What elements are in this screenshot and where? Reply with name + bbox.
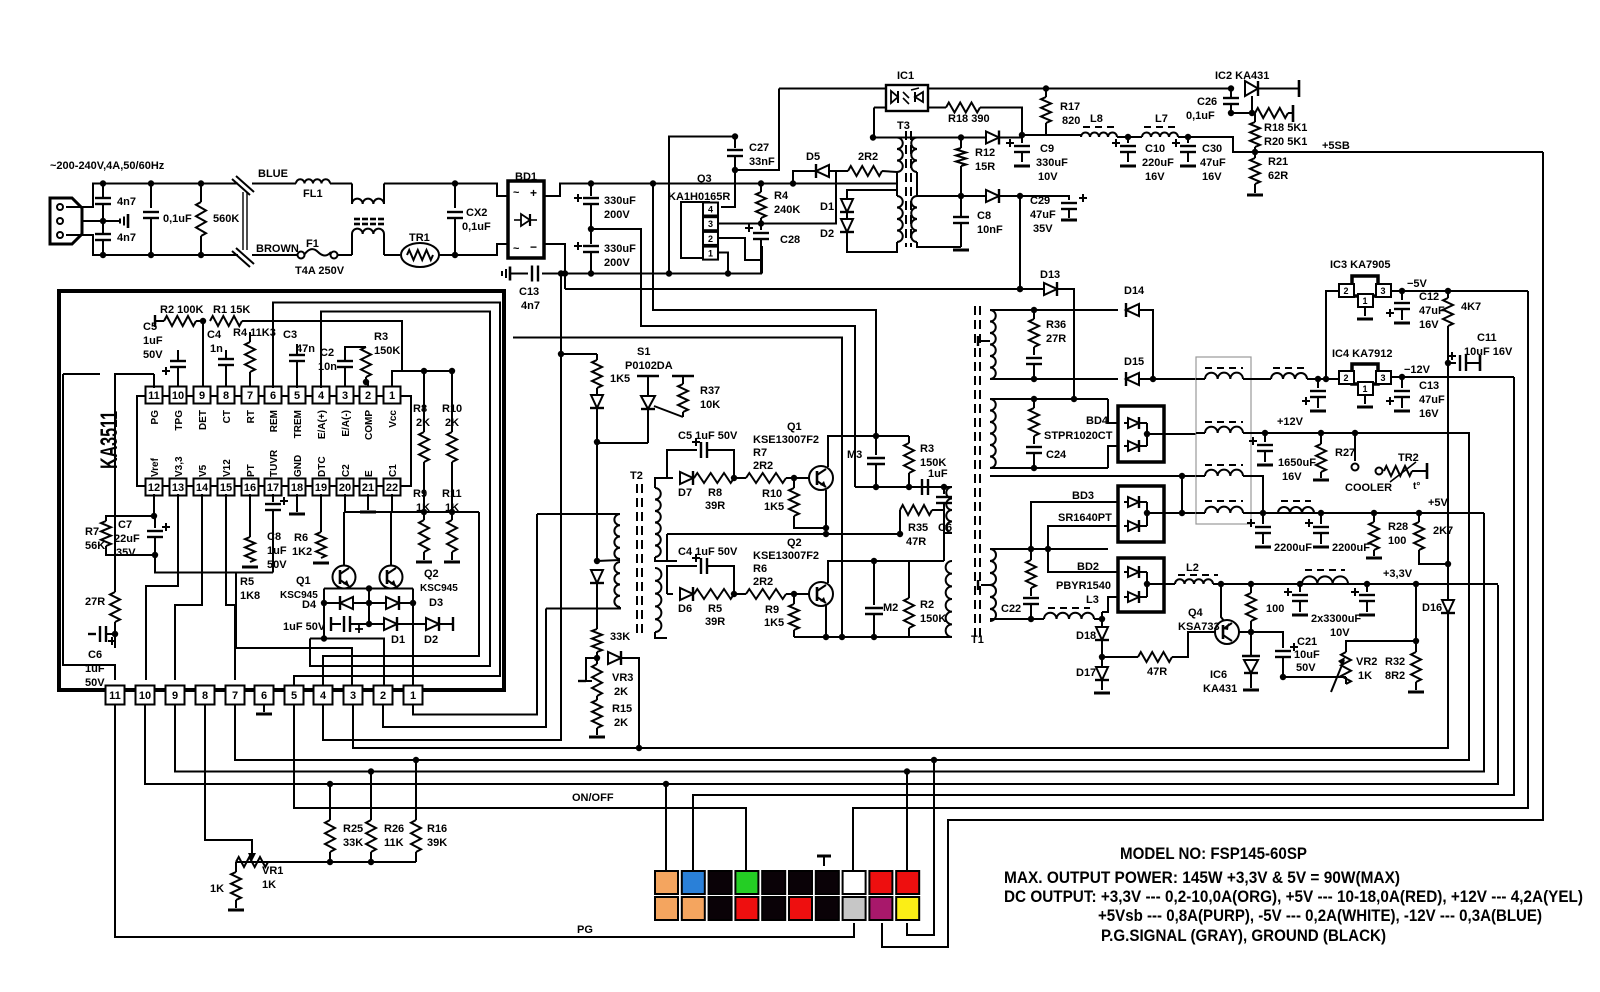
wire drive to ext2	[310, 639, 384, 689]
wire PG loop W1	[63, 374, 115, 680]
svg-text:BROWN: BROWN	[256, 243, 299, 255]
transformer T1 primary winding lower	[946, 561, 952, 637]
connector pad row2 red +5V	[735, 897, 758, 920]
svg-text:D15: D15	[1124, 356, 1144, 368]
svg-text:D2: D2	[820, 228, 834, 240]
svg-text:2K: 2K	[614, 686, 628, 698]
svg-text:0,1uF: 0,1uF	[1186, 110, 1215, 122]
wire C27 bottom to Q3 pin4	[721, 170, 735, 207]
capacitor 2200uF b	[1320, 513, 1322, 524]
svg-text:COOLER: COOLER	[1345, 482, 1392, 494]
wire D10 down to D13	[1019, 196, 1021, 289]
svg-text:10K: 10K	[700, 399, 720, 411]
svg-text:7: 7	[232, 690, 238, 702]
svg-text:33nF: 33nF	[749, 156, 775, 168]
wire top AC line	[103, 183, 238, 185]
svg-text:150K: 150K	[374, 345, 400, 357]
svg-text:240K: 240K	[774, 204, 800, 216]
wire sec3 bottom	[990, 618, 1044, 620]
svg-text:R1 15K: R1 15K	[213, 304, 250, 316]
wire pin4 bus	[323, 274, 561, 741]
capacitor 4n7 upper	[102, 184, 104, 198]
svg-text:BD1: BD1	[515, 171, 537, 183]
filter module box	[1196, 357, 1251, 524]
svg-text:C2: C2	[341, 464, 352, 477]
wire C27 top link	[669, 137, 735, 274]
svg-text:6: 6	[261, 690, 267, 702]
wire	[330, 183, 352, 185]
svg-text:C3: C3	[283, 329, 297, 341]
wire ref node	[1231, 112, 1255, 114]
connector pad row2 purple +5Vsb	[869, 897, 892, 920]
svg-text:D17: D17	[1076, 667, 1096, 679]
resistor R12 15R	[960, 138, 962, 149]
svg-text:C29: C29	[1030, 195, 1050, 207]
svg-text:13: 13	[172, 482, 184, 494]
wire Q3 supply drop	[653, 184, 876, 437]
svg-text:4: 4	[708, 205, 713, 215]
node	[100, 180, 106, 186]
transformer T1 sec winding 12V	[990, 399, 996, 468]
wire pin9 bus +5V	[175, 513, 1484, 772]
node	[1117, 136, 1128, 138]
diode D9 standby	[986, 132, 999, 144]
svg-text:200V: 200V	[604, 209, 630, 221]
connector pad row1 black GND	[709, 871, 732, 894]
svg-text:27R: 27R	[1046, 333, 1066, 345]
connector pad row1 blue -12V	[682, 871, 705, 894]
diode DS2	[591, 570, 603, 583]
svg-text:1: 1	[1362, 296, 1367, 306]
wire T3 sec lower row	[917, 195, 986, 197]
svg-text:R28: R28	[1388, 521, 1408, 533]
svg-text:D14: D14	[1124, 285, 1145, 297]
svg-text:R7: R7	[753, 447, 767, 459]
svg-text:C30: C30	[1202, 143, 1222, 155]
wire pin1 bus	[413, 514, 537, 715]
svg-text:KSE13007F2: KSE13007F2	[753, 434, 819, 446]
svg-text:15R: 15R	[975, 161, 995, 173]
capacitor C330a 330uF 200V	[588, 180, 594, 186]
svg-text:L3: L3	[1086, 594, 1099, 606]
resistor R21 62R	[1254, 152, 1256, 158]
connector pad row2 orange +3,3V	[682, 897, 705, 920]
wire 27R net	[115, 374, 154, 580]
wire TREM stub	[296, 375, 298, 388]
ground earth C13	[509, 267, 512, 281]
svg-text:R8: R8	[708, 487, 722, 499]
svg-text:E: E	[364, 470, 375, 477]
svg-text:IC6: IC6	[1210, 669, 1227, 681]
svg-text:16V: 16V	[1419, 319, 1439, 331]
wire E pin stub	[367, 494, 369, 510]
wire PG bus	[115, 705, 854, 937]
thermistor TR1	[401, 243, 439, 267]
svg-text:4K7: 4K7	[1461, 301, 1481, 313]
svg-text:IC3 KA7905: IC3 KA7905	[1330, 259, 1391, 271]
svg-text:T4A 250V: T4A 250V	[295, 265, 345, 277]
transformer T3 primary winding lower	[897, 196, 903, 242]
svg-text:Vcc: Vcc	[388, 410, 399, 428]
control board border	[59, 291, 504, 690]
svg-text:+5SB: +5SB	[1322, 140, 1350, 152]
svg-text:REM: REM	[269, 410, 280, 432]
svg-text:330uF: 330uF	[604, 243, 636, 255]
svg-text:C4: C4	[207, 329, 222, 341]
svg-text:S1: S1	[637, 346, 650, 358]
capacitor C13b 47uF 16V	[1399, 374, 1405, 380]
wire C2 stub	[344, 494, 346, 512]
svg-text:1K: 1K	[262, 879, 276, 891]
connector pad row2 red +5V	[789, 897, 812, 920]
svg-text:−: −	[530, 240, 537, 254]
IC U1 top pins	[146, 387, 163, 404]
wire BD2 out +3,3V	[1147, 583, 1175, 585]
wire	[252, 183, 296, 185]
svg-text:1uF: 1uF	[143, 335, 163, 347]
svg-text:DTC: DTC	[317, 456, 328, 477]
switch S ac	[236, 176, 254, 192]
svg-text:16V: 16V	[1202, 171, 1222, 183]
svg-text:2200uF: 2200uF	[1332, 542, 1370, 554]
svg-text:16V: 16V	[1282, 471, 1302, 483]
svg-text:R37: R37	[700, 385, 720, 397]
svg-text:Q2: Q2	[787, 537, 802, 549]
node Vref	[153, 494, 155, 516]
capacitor C36	[1026, 357, 1042, 359]
svg-text:1K5: 1K5	[764, 501, 784, 513]
capacitor CX2 0,1uF	[454, 184, 456, 209]
svg-text:C1: C1	[388, 464, 399, 477]
wire IC3 feed	[1326, 291, 1339, 379]
svg-text:2: 2	[365, 390, 371, 402]
svg-text:D3: D3	[429, 597, 443, 609]
svg-text:R3: R3	[374, 331, 388, 343]
svg-text:~: ~	[513, 187, 520, 199]
wire C1 junction	[392, 494, 452, 512]
svg-text:DC OUTPUT: +3,3V --- 0,2-10,0A: DC OUTPUT: +3,3V --- 0,2-10,0A(ORG), +5V…	[1004, 887, 1583, 906]
svg-text:3: 3	[350, 690, 356, 702]
svg-text:Q1: Q1	[296, 575, 311, 587]
node +5SB	[1252, 149, 1258, 155]
resistor R4 240K	[758, 180, 764, 186]
svg-text:Q3: Q3	[697, 173, 712, 185]
diode D VR3	[608, 652, 621, 664]
svg-text:C8: C8	[977, 210, 991, 222]
svg-text:10: 10	[139, 690, 151, 702]
svg-text:R18 5K1: R18 5K1	[1264, 122, 1307, 134]
transformer T1 sec winding 3V3/5V	[990, 549, 996, 621]
svg-text:200V: 200V	[604, 257, 630, 269]
wire Vcc rail	[392, 371, 452, 387]
svg-text:2R2: 2R2	[753, 576, 773, 588]
svg-text:1: 1	[410, 690, 416, 702]
svg-text:150K: 150K	[920, 613, 946, 625]
svg-text:KSE13007F2: KSE13007F2	[753, 550, 819, 562]
svg-text:19: 19	[315, 482, 327, 494]
svg-text:PG: PG	[150, 410, 161, 425]
svg-text:COMP: COMP	[364, 410, 375, 440]
svg-text:39K: 39K	[427, 837, 447, 849]
transformer T2 left winding upper	[614, 514, 620, 559]
wire -5V bus	[853, 291, 1528, 871]
wire BD1- bus right	[565, 288, 1035, 290]
svg-text:47n: 47n	[296, 343, 315, 355]
svg-text:R17: R17	[1060, 101, 1080, 113]
transformer T2 left winding lower	[614, 562, 620, 607]
svg-text:DET: DET	[198, 410, 209, 430]
connector pad row1 green ON/OFF	[735, 871, 758, 894]
wire BD1 + output	[544, 184, 591, 197]
diode D7	[667, 477, 673, 479]
wire C21 to VR2	[1283, 676, 1346, 678]
winding tap	[981, 340, 990, 342]
wire sec1 bottom	[990, 378, 1118, 380]
svg-text:T1: T1	[971, 634, 984, 646]
svg-text:33K: 33K	[343, 837, 363, 849]
wire ext3 link	[236, 573, 352, 689]
transformer T3 core	[905, 131, 907, 247]
svg-text:C2: C2	[320, 347, 334, 359]
transformer LF choke lower winding	[351, 234, 353, 255]
svg-text:C21: C21	[1297, 636, 1317, 648]
wire sec2 bottom	[990, 467, 1108, 469]
wire	[66, 206, 80, 208]
svg-text:D1: D1	[391, 634, 405, 646]
svg-text:Q1: Q1	[787, 421, 802, 433]
svg-text:11: 11	[148, 390, 160, 402]
svg-text:2200uF: 2200uF	[1274, 542, 1312, 554]
svg-text:+5V: +5V	[1428, 497, 1449, 509]
svg-text:IC1: IC1	[897, 70, 914, 82]
wire T1 primary lower link	[874, 560, 944, 562]
svg-text:PG: PG	[577, 924, 593, 936]
svg-text:7: 7	[247, 390, 253, 402]
svg-text:C7: C7	[118, 519, 132, 531]
svg-text:820: 820	[1062, 115, 1080, 127]
diode D18	[1101, 619, 1103, 627]
svg-text:1n: 1n	[210, 343, 223, 355]
capacitor 3300uF a	[1299, 584, 1301, 592]
svg-text:RT: RT	[246, 410, 257, 423]
wire +3,3V drop to connector	[665, 784, 667, 871]
svg-text:D1: D1	[820, 201, 834, 213]
ground GND pin	[296, 494, 298, 512]
svg-text:C12: C12	[1419, 291, 1439, 303]
diode DS1	[591, 395, 603, 408]
transformer LF choke upper winding	[351, 184, 353, 205]
diode D2	[426, 618, 439, 630]
wire mid rail	[667, 533, 900, 535]
IC U1 body	[137, 396, 411, 486]
svg-text:SR1640PT: SR1640PT	[1058, 512, 1112, 524]
svg-text:V12: V12	[222, 459, 233, 477]
svg-text:2: 2	[1343, 286, 1348, 296]
resistor R20 5K1 vert	[1254, 113, 1256, 122]
capacitor Cpre -12V	[1317, 379, 1319, 388]
svg-text:50V: 50V	[143, 349, 163, 361]
svg-text:VR2: VR2	[1356, 656, 1377, 668]
wire IC2 cathode	[1251, 96, 1253, 113]
svg-text:CX2: CX2	[466, 207, 487, 219]
svg-text:C8: C8	[267, 531, 281, 543]
svg-text:16V: 16V	[1419, 408, 1439, 420]
wire primary-side return	[565, 288, 1044, 290]
capacitor C330b 330uF 200V	[590, 229, 592, 244]
svg-text:C6: C6	[88, 649, 102, 661]
svg-text:D18: D18	[1076, 630, 1096, 642]
svg-text:21: 21	[362, 482, 374, 494]
svg-text:0,1uF: 0,1uF	[163, 213, 192, 225]
inductor LF4 +5V	[1205, 500, 1243, 502]
svg-text:10uF 16V: 10uF 16V	[1464, 346, 1513, 358]
svg-text:47uF: 47uF	[1030, 209, 1056, 221]
svg-text:1: 1	[708, 249, 713, 259]
svg-text:330uF: 330uF	[604, 195, 636, 207]
ground earth	[103, 220, 120, 222]
connector pad row2 black GND	[762, 897, 785, 920]
svg-text:R18 390: R18 390	[948, 113, 990, 125]
inductor L3	[1048, 607, 1090, 609]
svg-text:4n7: 4n7	[117, 196, 136, 208]
transformer T2 right winding lower	[655, 568, 661, 632]
wire VR1 row	[236, 861, 416, 863]
wire bottom AC line	[103, 254, 238, 256]
svg-text:R5: R5	[240, 576, 254, 588]
svg-text:R15: R15	[612, 703, 632, 715]
svg-text:1K5: 1K5	[610, 373, 630, 385]
transformer T1 sec winding aux	[990, 310, 996, 379]
svg-text:M2: M2	[883, 602, 898, 614]
inductor L8	[1022, 134, 1081, 136]
svg-text:L8: L8	[1090, 113, 1103, 125]
wire Q3 pin2	[718, 238, 761, 260]
svg-text:27R: 27R	[85, 596, 105, 608]
resistor RS2	[1033, 399, 1035, 408]
wire S1 chain down	[596, 442, 598, 561]
resistor R18 390	[928, 107, 946, 109]
svg-text:R9: R9	[765, 604, 779, 616]
resistor R18 5K1 horiz	[1255, 108, 1288, 118]
svg-text:R6: R6	[753, 563, 767, 575]
wire emitter rail to sense	[513, 338, 842, 638]
svg-text:Q4: Q4	[1188, 607, 1204, 619]
capacitor C29 47uF 35V	[1020, 196, 1069, 200]
svg-text:C22: C22	[1001, 603, 1021, 615]
svg-text:R5: R5	[708, 603, 722, 615]
wire base rail	[324, 588, 413, 590]
inductor L5b	[1281, 500, 1311, 502]
svg-text:+: +	[530, 186, 537, 200]
svg-text:C24: C24	[1046, 449, 1067, 461]
transformer T3 primary winding upper	[897, 138, 903, 173]
capacitor 1650uF 16V	[1264, 433, 1266, 442]
svg-text:1K2: 1K2	[292, 546, 312, 558]
inductor LF2 +12V	[1205, 421, 1243, 423]
wire -5V out	[1391, 290, 1528, 292]
svg-text:35V: 35V	[116, 547, 136, 559]
svg-text:R3: R3	[920, 443, 934, 455]
wire midpoint to T2	[591, 229, 855, 487]
svg-text:P.G.SIGNAL (GRAY), GROUND (BLA: P.G.SIGNAL (GRAY), GROUND (BLACK)	[1101, 926, 1386, 945]
svg-text:KSA733: KSA733	[1178, 621, 1220, 633]
svg-text:C11: C11	[1477, 332, 1497, 344]
wire drive columns	[323, 589, 325, 639]
svg-text:47uF: 47uF	[1419, 305, 1445, 317]
svg-text:2R2: 2R2	[753, 460, 773, 472]
svg-text:47uF: 47uF	[1419, 394, 1445, 406]
diodes D1 D2 clamp	[846, 196, 848, 199]
diode D10 lower	[986, 190, 999, 202]
svg-text:R11: R11	[442, 488, 462, 500]
svg-text:10V: 10V	[1330, 627, 1350, 639]
svg-text:47uF: 47uF	[1200, 157, 1226, 169]
svg-text:22uF: 22uF	[114, 533, 140, 545]
svg-text:FL1: FL1	[303, 188, 323, 200]
svg-text:56K: 56K	[85, 540, 105, 552]
node	[562, 270, 568, 276]
svg-text:F1: F1	[306, 238, 319, 250]
svg-text:2R2: 2R2	[858, 151, 878, 163]
wire V5 to ext9	[175, 494, 202, 680]
svg-text:KA3511: KA3511	[96, 411, 123, 469]
transformer T2 right winding upper	[655, 488, 661, 557]
svg-text:47R: 47R	[906, 536, 926, 548]
svg-text:+5Vsb --- 0,8A(PURP), -5V ---: +5Vsb --- 0,8A(PURP), -5V --- 0,2A(WHITE…	[1098, 906, 1542, 925]
inductor LF1 -12V	[1205, 367, 1243, 369]
svg-text:C27: C27	[749, 142, 769, 154]
svg-text:4n7: 4n7	[117, 232, 136, 244]
resistor 2R2 primary	[829, 170, 848, 172]
svg-text:BD4: BD4	[1086, 415, 1109, 427]
svg-text:3: 3	[708, 219, 713, 229]
svg-text:1: 1	[1362, 384, 1367, 394]
svg-text:1K: 1K	[210, 883, 224, 895]
svg-text:6: 6	[270, 390, 276, 402]
transformer T2 core	[636, 484, 638, 638]
svg-text:10: 10	[172, 390, 184, 402]
wire Q1 emitter	[825, 490, 827, 534]
svg-text:D16: D16	[1422, 602, 1442, 614]
svg-text:17: 17	[267, 482, 279, 494]
svg-text:TPG: TPG	[174, 410, 185, 431]
svg-text:R9: R9	[413, 488, 427, 500]
diode D6	[667, 593, 673, 595]
svg-text:9: 9	[172, 690, 178, 702]
svg-text:+3,3V: +3,3V	[1383, 568, 1413, 580]
capacitor C30 47uF 16V	[1187, 137, 1189, 143]
wire BD2 inputs	[1048, 549, 1118, 572]
svg-text:14: 14	[196, 482, 209, 494]
connector pad row1 orange +3,3V	[655, 871, 678, 894]
svg-text:C9: C9	[1040, 143, 1054, 155]
wire ext4 link	[452, 511, 479, 513]
svg-text:Q2: Q2	[424, 568, 439, 580]
connector pad row2 black GND	[816, 897, 839, 920]
svg-text:D5: D5	[806, 151, 820, 163]
svg-text:2: 2	[380, 690, 386, 702]
wire HV+ bus	[560, 183, 884, 185]
connector pad row1 black GND	[762, 871, 785, 894]
ground connector	[817, 855, 831, 858]
wire BD3 inputs	[1031, 502, 1118, 549]
svg-text:L2: L2	[1186, 562, 1199, 574]
wire brown	[252, 254, 298, 256]
svg-text:1uF: 1uF	[267, 545, 287, 557]
diode D4	[321, 600, 327, 606]
wire Q2 bottom rail	[794, 636, 909, 638]
svg-text:MODEL NO: FSP145-60SP: MODEL NO: FSP145-60SP	[1120, 844, 1307, 863]
